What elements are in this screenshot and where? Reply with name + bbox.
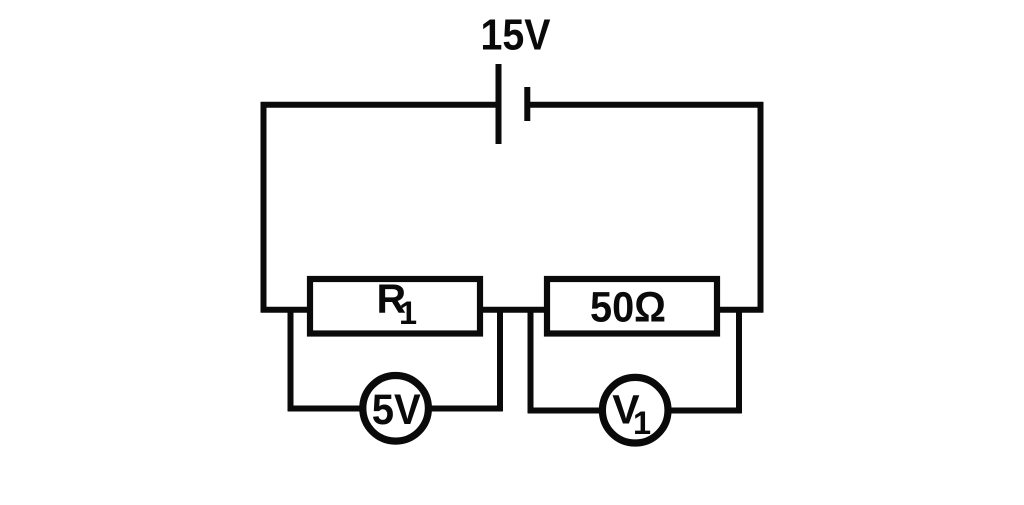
svg-text:15V: 15V (481, 12, 551, 60)
wire right connector from 50ohm (717, 307, 763, 313)
voltmeter 5V circle (363, 376, 429, 442)
svg-text:1: 1 (399, 295, 417, 331)
resistor R1 label (377, 275, 418, 331)
wire bottom right (through V1 meter) (528, 408, 742, 414)
wire top-left segment (261, 102, 499, 108)
voltmeter V1 circle (602, 377, 668, 443)
wire branch left (5V loop left) (288, 307, 294, 411)
svg-text:50Ω: 50Ω (590, 284, 666, 332)
wire branch right (V1 loop right) (736, 307, 742, 413)
resistor 50 ohm box (547, 279, 717, 334)
wire right outer vertical (758, 102, 764, 313)
battery 15V short plate (negative) (524, 87, 530, 121)
wire branch middle-left (5V loop right) (497, 307, 503, 411)
wire left outer vertical (261, 102, 267, 313)
wire bottom left (through 5V meter) (288, 406, 503, 412)
svg-text:5V: 5V (372, 386, 421, 434)
wire left connector to R1 (261, 307, 310, 313)
wire branch middle-right (V1 loop left) (528, 307, 534, 413)
resistor R1 box (310, 279, 480, 334)
wire middle connector between R1 and 50ohm (480, 307, 547, 313)
battery 15V long plate (positive) (496, 64, 502, 144)
wire top-right segment (527, 102, 763, 108)
voltmeter V1 label (612, 387, 651, 442)
svg-text:1: 1 (633, 405, 651, 441)
